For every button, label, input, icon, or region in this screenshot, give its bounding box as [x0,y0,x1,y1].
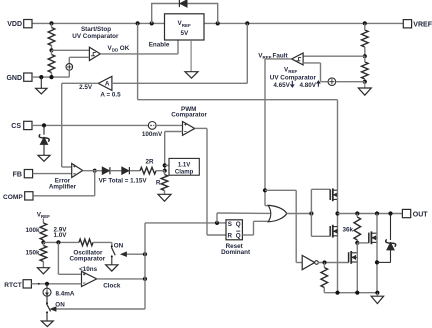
wire: PWM - input from divider node [165,132,183,171]
svg-text:2R: 2R [145,159,154,166]
node: zener tap [388,211,392,215]
wire: inverter output [318,262,348,264]
resistor: osc charge [79,239,93,246]
wire: fault branch to inverter [265,190,302,262]
node: OUT rail left [335,211,339,215]
ground: 150k ground [37,268,49,274]
node: RTCT tick [38,283,40,285]
label R [156,180,161,187]
node: clock junction [143,277,147,281]
inverter U8 [302,255,318,269]
resistor: VREF divider lower [362,56,369,81]
wire: hysteresis source to GND net [68,70,70,77]
svg-text:Comparator: Comparator [171,111,207,118]
label Clock [103,283,121,290]
resistor: VREF divider upper [362,23,369,56]
label 100mV [142,131,163,138]
transistor Q2 totem bottom [330,225,337,238]
pin VDD [7,20,32,29]
label 2R [145,159,154,166]
label 8.4mA [56,291,75,298]
svg-text:S: S [228,221,232,228]
svg-text:ON: ON [114,242,124,249]
wire: between diodes [110,170,122,172]
node: divider node [163,169,167,173]
wire: GND net [32,76,69,78]
wire: totem vertical [337,190,339,293]
wire: RTCT net [31,283,81,285]
latch U6 SR [226,220,242,240]
wire: bypass diode loop [152,4,218,24]
node: fault divider upper tap [363,54,367,58]
pin OUT [402,209,428,218]
svg-text:Amplifier: Amplifier [49,184,77,191]
svg-text:UV Comparator: UV Comparator [72,33,119,40]
svg-text:36k: 36k [342,227,353,234]
wire: VDD rail [32,22,165,24]
svg-text:4.65V: 4.65V [273,82,290,89]
diode D1 bypass across regulator [179,0,187,7]
node: VDD rail junction at divider [49,21,53,25]
pin GND [6,73,32,82]
resistor 100k [40,223,47,242]
node: GND divider tap [49,75,53,79]
wire: clock to OR gate middle [217,213,272,223]
wire: clock bus vertical [144,223,146,309]
svg-text:Q: Q [236,221,241,228]
pin VREF [403,20,432,29]
svg-text:UV Comparator: UV Comparator [270,75,317,82]
or-gate U7 [268,205,287,221]
svg-text:GND: GND [6,75,22,82]
wire: latch Qbar to OR gate [242,221,271,235]
comparator U2 VREF UV [292,53,304,65]
wire: clock control to osc switch [121,252,145,256]
node: switch-control junction [143,252,147,256]
block: VREF 5V regulator [165,14,205,40]
switch SW1 osc discharge [111,245,115,264]
svg-text:FB: FB [13,172,22,179]
label ON osc [114,242,124,249]
wire: hysteresis source to lower tap [336,81,365,83]
zener D2 CS clamp [39,125,49,144]
pin CS [11,121,32,130]
label 2.9V 1.0V [54,227,68,240]
node: middle FET drain tap [375,211,379,215]
diode D4 level shift [122,167,130,174]
wire: Q4 vertical [356,243,358,293]
label 100k [25,227,40,234]
svg-text:Comparator: Comparator [69,255,105,262]
wire: upper tap to fault comparator [303,55,365,57]
svg-text:ON: ON [55,302,65,309]
current source I2 fault hysteresis [328,78,336,86]
current source I1 hysteresis [66,64,73,71]
label Enable [149,41,170,48]
wire: OR output to gate bus [287,213,312,215]
label 150k [25,250,40,257]
label A = 0.5 [100,92,121,99]
node: bottom rail 1 [335,291,339,295]
wire: VDD OK / Enable [100,40,178,54]
wire: diode to 2R [130,170,141,172]
node: CS clamp tap [42,123,46,127]
svg-text:VDD: VDD [7,21,22,28]
resistor R divider [161,171,168,195]
wire: node to clamp box [165,164,169,166]
svg-text:CS: CS [11,123,21,130]
label VF Total = 1.15V [99,178,148,185]
ground: osc switch ground [106,265,118,271]
node: bypass diode right tap [216,21,220,25]
svg-text:OUT: OUT [413,212,429,219]
node: fault divider lower tap [363,80,367,84]
wire: lower FET gate lead [311,235,330,237]
svg-text:1.0V: 1.0V [54,232,68,239]
zener D5 output clamp [377,214,396,263]
wire: 36k node to middle FET gate [357,242,369,244]
node: osc comparator branch [56,240,60,244]
label 2.5V [79,84,93,91]
wire: 2R to node [156,170,165,172]
label VDD OK [108,45,130,53]
wire: top FET gate lead [311,188,330,190]
pin RTCT [4,280,31,289]
wire: divider tap to UV comparator + [52,49,90,51]
switch SW2 discharge [46,302,51,321]
svg-text:COMP: COMP [3,194,23,201]
svg-text:5V: 5V [180,30,189,37]
comparator U5 oscillator [82,271,97,286]
diode D3 level shift [102,167,110,174]
wire: gate bus [310,189,312,236]
wire: clock to 8.4mA switch [51,307,146,311]
transistor Q3 pull-up sense [369,231,377,244]
transistor Q4 pull-down [349,251,358,264]
wire: VDD feed to output stage [138,23,338,190]
label VREF osc [37,211,50,219]
svg-text:A: A [105,81,110,88]
resistor 150k [40,242,47,267]
wire: fault output run [265,59,292,206]
node: error amp output [93,169,97,173]
ground: VREF divider ground [358,82,371,96]
block: 1.1V clamp [169,158,199,175]
node: VREF divider top tap [363,21,367,25]
wire: bottom rail [324,292,377,294]
node: S line junction [215,221,219,225]
voltage source 100mV offset [148,122,156,130]
svg-text:VREF: VREF [413,21,432,28]
pin COMP [3,192,33,201]
node: 36k bottom node [355,241,359,245]
svg-text:Enable: Enable [149,41,170,48]
node: 36k tap [355,211,359,215]
wire: osc comparator + input [58,242,81,274]
node: bottom rail 2 [355,291,359,295]
label Oscillator Comparator <10ns [69,249,105,273]
wire: CS net [32,124,148,126]
ground: R divider ground [158,194,171,201]
node: clamp stub node [163,163,167,167]
wire: OUT rail [338,213,403,215]
svg-text:100k: 100k [25,227,40,234]
svg-text:Q: Q [236,233,241,240]
wire: charge resistor to switch [93,242,112,245]
label 36k [342,227,353,234]
wire: UV comparator - input [69,57,89,63]
wire: fault to OR gate top [265,205,271,207]
wire: VREF to 100k [42,218,44,223]
node: GND ground tap [39,75,43,79]
node: gate bus junction [309,211,313,215]
current source I3 8.4mA [43,284,51,303]
wire: PWM output to latch R [195,128,226,235]
svg-text:4.80V: 4.80V [300,82,317,89]
svg-text:8.4mA: 8.4mA [56,291,75,298]
label Error Amplifier [49,177,77,190]
wire: osc tap run [43,241,79,243]
node: bypass diode left tap [150,21,154,25]
comparator U3 PWM [183,122,195,136]
svg-text:Dominant: Dominant [221,249,251,256]
svg-text:Clock: Clock [103,283,121,290]
comparator U1 Start/Stop UV [89,47,100,60]
wire: VREF rail [204,22,403,24]
node: middle FET source node [375,260,379,264]
resistor 36k [354,214,361,243]
label PWM Comparator [171,106,207,119]
node: inverter output node [322,260,326,264]
wire: fault comparator lower input [303,63,328,82]
node: osc divider tap [41,240,45,244]
wire: error amp output run [83,170,103,172]
wire: clock to latch S [145,222,226,224]
wire: clock output [97,278,145,280]
svg-text:Start/Stop: Start/Stop [81,26,111,33]
amplifier A=0.5 [98,76,112,90]
label VREF Fault [258,52,288,60]
wire: FB to error amp - [33,173,72,175]
transistor Q1 totem top [330,188,337,201]
node: fault branch junction [263,188,267,192]
label VREF UV Comparator [270,66,320,89]
svg-text:OK: OK [120,45,130,52]
svg-text:1.1V: 1.1V [178,162,190,168]
svg-text:100mV: 100mV [142,131,163,138]
resistor: VDD divider upper [48,23,55,50]
ground: output stage ground [371,293,383,304]
label Start/Stop UV Comparator [72,26,119,40]
op-amp U4 error amplifier [72,164,83,178]
node: UV divider tap [49,48,53,52]
node: A-amp input tap on VREF rail [245,21,249,25]
svg-text:R: R [228,233,233,240]
svg-text:150k: 150k [25,250,40,257]
pin FB [13,170,33,179]
wire: A amp input from VREF rail [112,23,247,83]
svg-text:VF Total = 1.15V: VF Total = 1.15V [99,178,148,185]
svg-text:A = 0.5: A = 0.5 [100,92,121,99]
ground: 8.4mA switch ground [41,321,53,327]
node: RTCT discharge tap [45,282,49,286]
resistor: VDD divider lower [48,50,55,77]
svg-text:RTCT: RTCT [4,282,22,289]
node: bottom rail 3 [375,291,379,295]
node: VDD feed tap [136,21,140,25]
resistor 2R [140,167,156,174]
wire: middle FET vertical [376,214,378,293]
wire: offset to PWM comparator + [156,124,182,126]
svg-text:2.5V: 2.5V [79,84,93,91]
label ON 8.4mA [55,302,65,309]
svg-text:Clamp: Clamp [175,169,194,175]
label Reset Dominant [221,243,251,256]
ground: regulator ground [185,40,198,78]
wire: COMP to error amp output [33,171,95,196]
ground: CS clamp ground [38,144,50,161]
svg-text:R: R [156,180,161,187]
wire: 2.5V reference to error amp + [62,83,99,167]
ground: GND pin ground [36,77,47,94]
resistor: gate pulldown [321,263,328,293]
